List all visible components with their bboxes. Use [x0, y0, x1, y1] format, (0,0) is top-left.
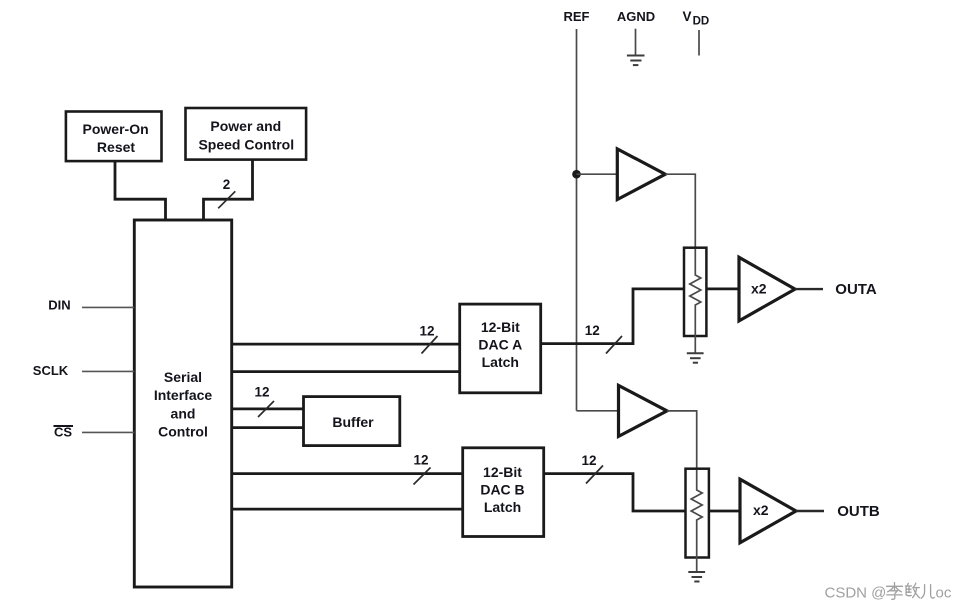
svg-text:DAC A: DAC A: [478, 337, 522, 353]
op-amp buffer B (REF follower): [619, 385, 668, 436]
wire x2 B output: [796, 510, 824, 512]
wire amp B output to resistor B top: [667, 411, 697, 469]
resistor B element: [691, 470, 702, 557]
block Serial Interface and Control: [134, 220, 231, 587]
svg-text:2: 2: [223, 177, 231, 192]
svg-text:REF: REF: [564, 9, 590, 24]
wire VDD stub: [698, 30, 700, 56]
svg-text:12-Bit: 12-Bit: [483, 464, 522, 480]
svg-text:DAC B: DAC B: [480, 482, 524, 498]
wire serial to DAC B latch upper: [232, 472, 463, 475]
svg-text:x2: x2: [753, 502, 769, 518]
bus slash DAC B input: [414, 468, 431, 485]
bus slash DAC A input: [422, 336, 438, 354]
amplifier x2 A: [739, 257, 795, 321]
svg-text:and: and: [171, 405, 196, 421]
wire Power and Speed Control to Serial Interface: [204, 160, 253, 220]
svg-text:AGND: AGND: [617, 9, 655, 24]
watermark CJK char min: [905, 583, 919, 598]
wire Power-On Reset to Serial Interface: [115, 161, 166, 220]
resistor A element: [690, 249, 701, 336]
block Power and Speed Control: [186, 108, 307, 160]
ground below resistor B: [688, 572, 705, 582]
svg-text:12: 12: [413, 453, 428, 468]
wire serial to DAC B latch lower: [232, 508, 463, 511]
wire serial to DAC A latch upper: [232, 343, 460, 346]
svg-text:Serial: Serial: [164, 369, 202, 385]
wire x2 A output: [795, 288, 823, 290]
bus slash DAC B output: [586, 466, 603, 484]
svg-text:Buffer: Buffer: [332, 414, 374, 430]
node VDD label: [683, 9, 710, 28]
wire DIN: [82, 306, 134, 308]
wire junction to amp A input: [577, 173, 619, 175]
wire serial to buffer lower: [232, 426, 304, 429]
block 12-Bit DAC B Latch: [463, 448, 544, 537]
watermark CJK char er: [921, 585, 934, 599]
wire resistor B to x2 amp B: [709, 510, 740, 513]
wire resistor B to ground: [696, 557, 698, 572]
svg-text:OUTB: OUTB: [837, 503, 880, 520]
svg-text:SCLK: SCLK: [33, 363, 69, 378]
svg-text:Latch: Latch: [484, 499, 521, 515]
svg-text:DD: DD: [693, 16, 710, 28]
svg-text:Speed Control: Speed Control: [198, 136, 294, 152]
wire DAC B output bus to resistor B: [544, 474, 686, 511]
bus slash DAC A output: [606, 336, 622, 354]
wire resistor A to x2 amp A: [706, 287, 739, 290]
svg-text:Power and: Power and: [210, 118, 281, 134]
svg-text:Reset: Reset: [97, 139, 135, 155]
resistor B box: [686, 469, 709, 558]
wire DAC A output bus to resistor A: [541, 289, 684, 344]
pin CS label with overline: [54, 424, 74, 439]
svg-text:12: 12: [585, 323, 600, 338]
wire REF to amp B input: [577, 410, 620, 412]
svg-text:Power-On: Power-On: [83, 121, 149, 137]
wire amp A output to resistor A top: [665, 174, 695, 248]
svg-text:12: 12: [419, 324, 434, 339]
wire serial to DAC A latch lower: [232, 370, 460, 373]
svg-text:Latch: Latch: [482, 354, 519, 370]
svg-text:12: 12: [254, 385, 269, 400]
bus slash on control bus: [218, 191, 235, 208]
block 12-Bit DAC A Latch: [460, 304, 541, 393]
node REF junction dot: [572, 170, 581, 179]
svg-text:x2: x2: [751, 280, 767, 296]
svg-text:Interface: Interface: [154, 387, 213, 403]
svg-text:DIN: DIN: [48, 298, 70, 313]
svg-text:OUTA: OUTA: [835, 281, 877, 298]
svg-text:CSDN @: CSDN @: [825, 584, 887, 601]
op-amp buffer A (REF follower): [617, 149, 665, 200]
wire REF junction to amp B: [576, 174, 578, 411]
wire REF vertical drop: [576, 29, 578, 174]
block Buffer: [304, 397, 400, 446]
ground AGND symbol: [627, 56, 645, 66]
block Power-On Reset: [66, 112, 162, 162]
ground below resistor A: [687, 353, 704, 363]
svg-text:V: V: [683, 9, 692, 24]
wire serial to buffer upper: [232, 408, 304, 411]
wire AGND stub: [635, 29, 637, 56]
wire resistor A to ground: [694, 336, 696, 353]
svg-text:12: 12: [581, 453, 596, 468]
wire CS: [82, 431, 134, 433]
amplifier x2 B: [740, 479, 796, 543]
bus slash buffer input: [258, 401, 274, 417]
svg-text:oc: oc: [936, 584, 952, 601]
wire SCLK: [82, 370, 134, 372]
svg-text:Control: Control: [158, 424, 208, 440]
watermark CJK char li: [887, 583, 903, 600]
svg-text:12-Bit: 12-Bit: [481, 319, 520, 335]
resistor A box: [684, 248, 706, 336]
